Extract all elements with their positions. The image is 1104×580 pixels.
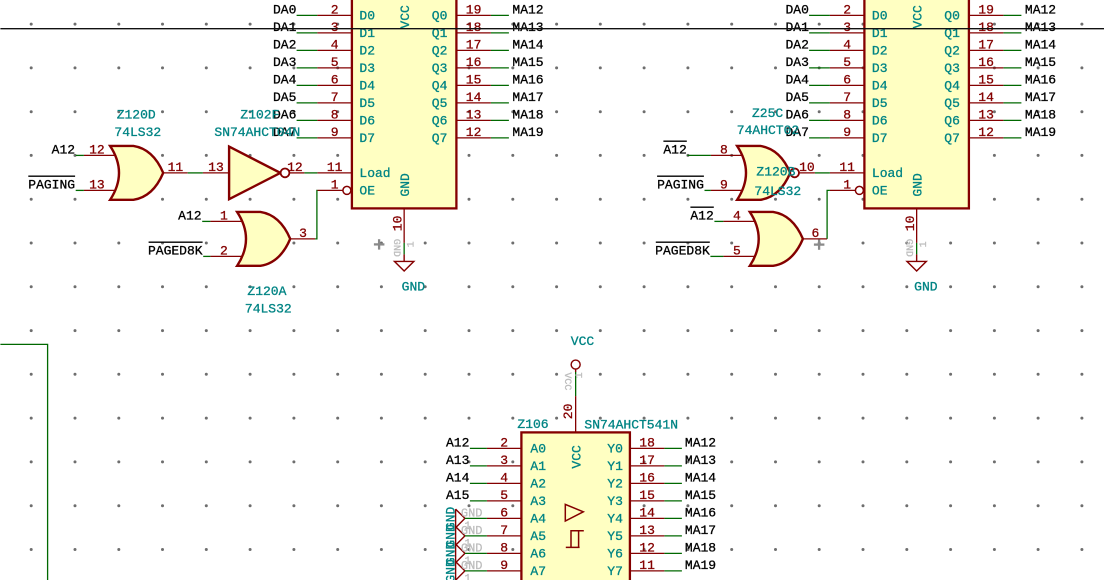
svg-text:Y2: Y2 (607, 477, 623, 492)
right register pin numbers (839, 2, 994, 192)
OR gate Z25C body (737, 146, 790, 200)
svg-text:DA0: DA0 (785, 2, 808, 17)
wire A15 to Z106 pin 5 (470, 500, 487, 502)
svg-text:A12: A12 (178, 208, 201, 223)
svg-text:SN74AHCT04N: SN74AHCT04N (214, 125, 300, 140)
svg-text:1: 1 (331, 177, 339, 192)
long horizontal black line across sheet (0, 28, 1104, 30)
Z106 pin 13 (Y5) and wire to MA17 (630, 535, 665, 537)
Z120B input pin 4 (723, 220, 755, 222)
inverter Z102F body (SN74AHCT04N) (229, 147, 280, 200)
left register wire DA3 to pin 5 (297, 67, 318, 69)
svg-text:5: 5 (500, 488, 508, 503)
Z25C output pin 10 (799, 172, 815, 174)
svg-text:Q0: Q0 (432, 9, 448, 24)
Z106 pin numbers (500, 435, 655, 573)
svg-text:GND: GND (461, 541, 483, 555)
svg-text:A5: A5 (530, 529, 546, 544)
Z106 pulse glyph (566, 531, 584, 548)
svg-text:10: 10 (903, 216, 918, 232)
svg-text:D7: D7 (359, 131, 375, 146)
left register wire MA12 from pin 19 (491, 14, 509, 16)
svg-text:VCC: VCC (910, 5, 925, 29)
svg-text:OE: OE (872, 184, 888, 199)
svg-text:11: 11 (639, 558, 655, 573)
left register pin 9 (D7) (317, 137, 352, 139)
Z106 pin 15 (Y3) and wire to MA15 (630, 500, 665, 502)
svg-text:MA14: MA14 (1025, 37, 1056, 52)
svg-text:8: 8 (720, 142, 728, 157)
register IC right register: body (864, 0, 969, 208)
svg-text:VCC: VCC (571, 334, 595, 349)
svg-text:6: 6 (843, 72, 851, 87)
svg-text:GND: GND (914, 279, 938, 294)
wire A12 to Z106 pin 2 (470, 447, 487, 449)
svg-text:Z102F: Z102F (240, 107, 279, 122)
svg-text:MA14: MA14 (685, 470, 716, 485)
right register wire DA6 to pin 8 (809, 119, 830, 121)
svg-text:MA18: MA18 (685, 540, 716, 555)
right register pin 7 (D5) (830, 102, 865, 104)
OR gate Z120B body (750, 212, 803, 266)
svg-text:16: 16 (639, 470, 655, 485)
left register wire DA0 to pin 2 (297, 14, 318, 16)
svg-text:D0: D0 (872, 9, 888, 24)
svg-text:D7: D7 (872, 131, 888, 146)
Z120A pin numbers (220, 208, 307, 258)
Z106 pin names A0-A7 (530, 442, 546, 580)
svg-text:MA16: MA16 (1025, 72, 1056, 87)
svg-text:D5: D5 (872, 96, 888, 111)
left register pin 2 (D0) (317, 14, 352, 16)
right register wire MA18 from pin 13 (1003, 119, 1021, 121)
svg-text:2: 2 (331, 2, 339, 17)
svg-text:8: 8 (500, 540, 508, 555)
left register pin 17 (Q2) (456, 49, 491, 51)
svg-text:GND: GND (461, 524, 483, 538)
svg-text:MA13: MA13 (512, 20, 543, 35)
svg-text:A4: A4 (530, 512, 546, 527)
svg-text:3: 3 (843, 20, 851, 35)
svg-text:MA17: MA17 (685, 523, 716, 538)
right register wire DA5 to pin 7 (809, 102, 830, 104)
svg-text:Z120D: Z120D (117, 107, 156, 122)
svg-text:DA2: DA2 (273, 37, 296, 52)
svg-text:13: 13 (208, 160, 224, 175)
svg-text:D2: D2 (872, 44, 888, 59)
svg-text:14: 14 (639, 505, 655, 520)
Z106 pin 4 (A2) (487, 482, 522, 484)
svg-text:8: 8 (331, 107, 339, 122)
svg-text:1: 1 (407, 241, 418, 247)
right register wire MA19 from pin 12 (1003, 137, 1021, 139)
right register pin 4 (D2) (830, 49, 865, 51)
wire Z120B pin 6 to right register OE pin 1 (827, 190, 830, 239)
svg-text:MA12: MA12 (1025, 2, 1056, 17)
svg-text:19: 19 (466, 2, 482, 17)
svg-text:Load: Load (359, 166, 390, 181)
right register wire MA13 from pin 18 (1003, 32, 1021, 34)
Z106 pin 11 (Y7) and wire to MA19 (630, 570, 665, 572)
Z106 pin 5 (A3) (487, 500, 522, 502)
right register pin 13 (Q6) (969, 119, 1004, 121)
svg-text:18: 18 (639, 435, 655, 450)
left register pin 10 (GND) vertical (403, 208, 405, 243)
left register wire MA15 from pin 16 (491, 67, 509, 69)
net labels MA12-MA19 at left register (512, 2, 543, 140)
Z102F input pin 13 (203, 172, 229, 174)
svg-text:6: 6 (500, 505, 508, 520)
svg-text:DA5: DA5 (273, 90, 296, 105)
Z106 pin names Y0-Y7 (607, 442, 623, 580)
Z25C input pin 9 (711, 189, 743, 191)
wire ground to Z106 pin 8 (465, 552, 487, 554)
svg-text:MA16: MA16 (685, 505, 716, 520)
svg-text:DA6: DA6 (785, 107, 808, 122)
left register wire MA18 from pin 13 (491, 119, 509, 121)
right register wire MA12 from pin 19 (1003, 14, 1021, 16)
svg-text:7: 7 (843, 90, 851, 105)
wire ground to Z106 pin 7 (465, 535, 487, 537)
svg-text:12: 12 (287, 160, 303, 175)
svg-text:Q4: Q4 (432, 79, 448, 94)
svg-text:15: 15 (639, 488, 655, 503)
svg-text:DA1: DA1 (785, 20, 809, 35)
svg-text:A7: A7 (530, 564, 546, 579)
right register pin 3 (D1) (830, 32, 865, 34)
svg-text:OE: OE (359, 184, 375, 199)
svg-text:74LS32: 74LS32 (245, 301, 292, 316)
svg-text:D3: D3 (872, 61, 888, 76)
svg-text:D6: D6 (872, 114, 888, 129)
svg-text:17: 17 (978, 37, 994, 52)
svg-text:6: 6 (331, 72, 339, 87)
wire A12 to Z120A pin 1 (202, 220, 210, 222)
Z25C input pin 8 (711, 154, 743, 156)
svg-text:13: 13 (89, 177, 105, 192)
svg-text:9: 9 (500, 558, 508, 573)
svg-text:15: 15 (466, 72, 482, 87)
svg-text:9: 9 (720, 177, 728, 192)
svg-text:MA14: MA14 (512, 37, 543, 52)
Z120B input pin 5 (723, 255, 755, 257)
svg-text:DA0: DA0 (273, 2, 296, 17)
svg-text:Z120A: Z120A (247, 284, 286, 299)
Z120D pin numbers (89, 142, 183, 192)
svg-text:11: 11 (168, 160, 184, 175)
OR gate Z120D body (110, 146, 163, 200)
Z106 pin 14 (Y4) and wire to MA16 (630, 517, 665, 519)
left register wire DA5 to pin 7 (297, 102, 318, 104)
Z106 pin 16 (Y2) and wire to MA14 (630, 482, 665, 484)
left register pin 15 (Q4) (456, 84, 491, 86)
svg-text:Z25C: Z25C (752, 106, 783, 121)
svg-text:8: 8 (843, 107, 851, 122)
svg-text:10: 10 (391, 216, 406, 232)
wire A13 to Z106 pin 3 (470, 465, 487, 467)
left register pin 14 (Q5) (456, 102, 491, 104)
ground symbol at Z106 pin 6 (456, 509, 465, 528)
right register pin 18 (Q1) (969, 32, 1004, 34)
wire VCC symbol to Z106 pin 20 (575, 372, 577, 396)
svg-text:Q5: Q5 (944, 96, 960, 111)
right register wire DA0 to pin 2 (809, 14, 830, 16)
left register wire DA7 to pin 9 (297, 137, 318, 139)
right register wire MA16 from pin 15 (1003, 84, 1021, 86)
svg-text:A13: A13 (446, 453, 469, 468)
svg-text:19: 19 (978, 2, 994, 17)
svg-text:MA13: MA13 (1025, 20, 1056, 35)
left register wire DA6 to pin 8 (297, 119, 318, 121)
svg-text:VCC: VCC (398, 5, 413, 29)
right register pin 6 (D4) (830, 84, 865, 86)
svg-text:74AHCT02: 74AHCT02 (737, 123, 799, 138)
left register pin 19 (Q0) (456, 14, 491, 16)
left register pin names Q0-Q7 (432, 9, 448, 147)
svg-text:A12: A12 (663, 142, 686, 157)
right register pin 16 (Q3) (969, 67, 1004, 69)
right register wire DA4 to pin 6 (809, 84, 830, 86)
svg-text:DA1: DA1 (273, 20, 297, 35)
svg-text:MA18: MA18 (512, 107, 543, 122)
svg-text:GND: GND (402, 279, 426, 294)
net labels DA0-DA7 at left register (273, 2, 297, 140)
svg-text:5: 5 (843, 55, 851, 70)
OR gate Z120A body (237, 212, 290, 266)
right register pin names D0-D7 (872, 9, 888, 147)
left register pin 8 (D6) (317, 119, 352, 121)
ground symbol below right register (916, 254, 918, 261)
left register wire MA16 from pin 15 (491, 84, 509, 86)
left register pin 5 (D3) (317, 67, 352, 69)
svg-text:1: 1 (575, 372, 586, 378)
right register pin names Q0-Q7 (944, 9, 960, 147)
svg-text:GND: GND (444, 559, 459, 580)
wire PAGING to Z25C pin 9 (705, 189, 711, 191)
svg-text:DA3: DA3 (785, 55, 808, 70)
svg-text:MA15: MA15 (512, 55, 543, 70)
svg-text:16: 16 (466, 55, 482, 70)
ground symbol at Z106 pin 7 (456, 527, 465, 546)
svg-text:Q7: Q7 (944, 131, 960, 146)
svg-text:PAGED8K: PAGED8K (655, 243, 710, 258)
svg-text:GND: GND (390, 239, 401, 257)
svg-text:MA15: MA15 (685, 488, 716, 503)
svg-text:Y4: Y4 (607, 512, 623, 527)
svg-text:13: 13 (639, 523, 655, 538)
Z106 pin 7 (A5) (487, 535, 522, 537)
svg-text:13: 13 (466, 107, 482, 122)
svg-text:D6: D6 (359, 114, 375, 129)
svg-text:DA5: DA5 (785, 90, 808, 105)
anchor cross marker (right) (814, 239, 825, 249)
buffer IC Z106 body (SN74AHCT541N) (521, 432, 630, 580)
svg-text:2: 2 (220, 243, 228, 258)
left register pin 3 (D1) (317, 32, 352, 34)
left register pin names D0-D7 (359, 9, 375, 147)
svg-text:Y5: Y5 (607, 529, 623, 544)
svg-text:GND: GND (902, 239, 913, 257)
svg-text:MA13: MA13 (685, 453, 716, 468)
Z120A output pin 3 (290, 238, 315, 240)
svg-text:Q6: Q6 (432, 114, 448, 129)
svg-text:1: 1 (220, 208, 228, 223)
svg-text:18: 18 (978, 20, 994, 35)
svg-text:Z106: Z106 (517, 417, 548, 432)
right register wire MA17 from pin 14 (1003, 102, 1021, 104)
svg-text:5: 5 (331, 55, 339, 70)
right register wire DA2 to pin 4 (809, 49, 830, 51)
svg-text:Q2: Q2 (432, 44, 448, 59)
right register pin 1 (OE) with inversion bubble (830, 189, 856, 191)
wire pin10 to GND symbol (right register) (916, 243, 918, 255)
left register pin 13 (Q6) (456, 119, 491, 121)
svg-text:MA17: MA17 (512, 90, 543, 105)
svg-text:Q3: Q3 (432, 61, 448, 76)
svg-text:4: 4 (331, 37, 339, 52)
left register wire DA4 to pin 6 (297, 84, 318, 86)
VCC power symbol above Z106 (571, 360, 580, 369)
svg-text:2: 2 (500, 435, 508, 450)
svg-text:DA4: DA4 (273, 72, 297, 87)
Z106 pin 8 (A6) (487, 552, 522, 554)
svg-text:Q0: Q0 (944, 9, 960, 24)
Z120A input pin 1 (210, 220, 242, 222)
wire A12 to Z120D pin 12 (76, 154, 84, 156)
right register pin 12 (Q7) (969, 137, 1004, 139)
svg-text:MA12: MA12 (512, 2, 543, 17)
svg-text:3: 3 (500, 453, 508, 468)
svg-text:9: 9 (843, 125, 851, 140)
wire ground to Z106 pin 9 (465, 570, 487, 572)
left register pin 18 (Q1) (456, 32, 491, 34)
svg-text:D4: D4 (359, 79, 375, 94)
Z120D input pin 12 (84, 154, 116, 156)
svg-text:VCC: VCC (561, 372, 572, 390)
wire pin10 to GND symbol (left register) (403, 243, 405, 255)
svg-text:14: 14 (466, 90, 482, 105)
net labels MA12-MA19 at right register (1025, 2, 1056, 140)
left register wire MA14 from pin 17 (491, 49, 509, 51)
svg-text:A14: A14 (446, 470, 470, 485)
svg-text:A15: A15 (446, 488, 469, 503)
right register pin 14 (Q5) (969, 102, 1004, 104)
right register pin 19 (Q0) (969, 14, 1004, 16)
svg-text:Y7: Y7 (607, 564, 623, 579)
svg-text:Y6: Y6 (607, 547, 623, 562)
right register wire DA3 to pin 5 (809, 67, 830, 69)
svg-text:Q6: Q6 (944, 114, 960, 129)
Z102F output pin 12 (289, 172, 304, 174)
svg-text:6: 6 (811, 226, 819, 241)
svg-text:Q4: Q4 (944, 79, 960, 94)
svg-text:74LS32: 74LS32 (114, 125, 161, 140)
svg-text:MA19: MA19 (512, 125, 543, 140)
Z102F pin numbers (208, 160, 303, 175)
net labels DA0-DA7 at right register (785, 2, 809, 140)
wire A12 to Z25C pin 8 (687, 154, 711, 156)
svg-text:VCC: VCC (569, 445, 584, 469)
svg-text:A12: A12 (690, 208, 713, 223)
svg-text:PAGING: PAGING (28, 177, 75, 192)
svg-text:A12: A12 (446, 435, 469, 450)
wire (bottom-left frame wire) (0, 344, 47, 580)
svg-text:Q7: Q7 (432, 131, 448, 146)
right register pin 5 (D3) (830, 67, 865, 69)
right register pin 2 (D0) (830, 14, 865, 16)
svg-text:D2: D2 (359, 44, 375, 59)
svg-text:Y3: Y3 (607, 494, 623, 509)
wire Z25C pin 10 to right register Load pin 11 (815, 172, 830, 174)
left register wire DA2 to pin 4 (297, 49, 318, 51)
Z120D input pin 13 (84, 189, 116, 191)
wire ground to Z106 pin 6 (465, 517, 487, 519)
wire PAGED8K to Z120B pin 5 (710, 255, 723, 257)
wire Z120A pin 3 to left register OE pin 1 (315, 190, 317, 239)
svg-text:2: 2 (843, 2, 851, 17)
Z106 pin 3 (A1) (487, 465, 522, 467)
left register wire MA17 from pin 14 (491, 102, 509, 104)
Z120D output pin 11 (163, 172, 188, 174)
right register pin 17 (Q2) (969, 49, 1004, 51)
svg-text:17: 17 (639, 453, 655, 468)
left register pin 4 (D2) (317, 49, 352, 51)
svg-text:12: 12 (639, 540, 655, 555)
right register pin 11 (Load) (830, 172, 865, 174)
Z106 pin 9 (A7) (487, 570, 522, 572)
svg-text:3: 3 (331, 20, 339, 35)
svg-text:MA19: MA19 (685, 558, 716, 573)
svg-text:PAGED8K: PAGED8K (148, 243, 203, 258)
svg-text:7: 7 (331, 90, 339, 105)
register IC left register: body (352, 0, 457, 208)
left register pin numbers (327, 2, 482, 192)
svg-text:GND: GND (461, 559, 483, 573)
Z106 pin 18 (Y0) and wire to MA12 (630, 447, 665, 449)
svg-text:Q2: Q2 (944, 44, 960, 59)
svg-text:D4: D4 (872, 79, 888, 94)
Z25C pin numbers (720, 142, 815, 192)
svg-text:DA4: DA4 (785, 72, 809, 87)
right register wire DA1 to pin 3 (809, 32, 830, 34)
svg-text:D3: D3 (359, 61, 375, 76)
svg-text:GND: GND (910, 173, 925, 197)
svg-text:Y0: Y0 (607, 442, 623, 457)
right register pin 8 (D6) (830, 119, 865, 121)
svg-text:17: 17 (466, 37, 482, 52)
svg-text:MA16: MA16 (512, 72, 543, 87)
svg-text:4: 4 (843, 37, 851, 52)
svg-text:11: 11 (327, 160, 343, 175)
Z120A input pin 2 (210, 255, 242, 257)
svg-text:13: 13 (978, 107, 994, 122)
svg-text:12: 12 (89, 142, 105, 157)
svg-text:1: 1 (464, 573, 471, 580)
svg-text:15: 15 (978, 72, 994, 87)
left register wire DA1 to pin 3 (297, 32, 318, 34)
left register pin 16 (Q3) (456, 67, 491, 69)
svg-text:10: 10 (799, 160, 815, 175)
wire A12 to Z120B pin 4 (714, 220, 723, 222)
left register wire MA13 from pin 18 (491, 32, 509, 34)
svg-text:9: 9 (331, 125, 339, 140)
svg-text:4: 4 (733, 208, 741, 223)
right register wire DA7 to pin 9 (809, 137, 830, 139)
wire PAGING to Z120D pin 13 (76, 189, 84, 191)
svg-text:Z120B: Z120B (756, 164, 795, 179)
svg-text:D5: D5 (359, 96, 375, 111)
svg-text:MA19: MA19 (1025, 125, 1056, 140)
